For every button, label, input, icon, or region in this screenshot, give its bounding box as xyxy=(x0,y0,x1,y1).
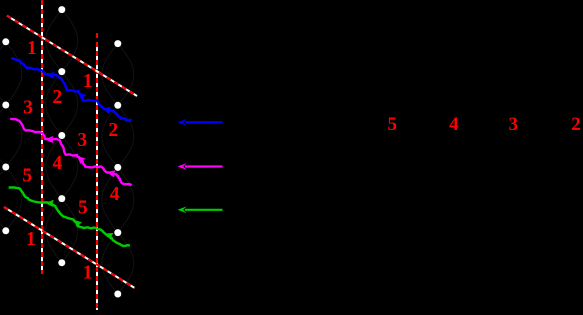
svg-text:3: 3 xyxy=(77,130,87,151)
svg-text:3: 3 xyxy=(23,98,33,119)
svg-text:4: 4 xyxy=(449,114,459,135)
svg-text:5: 5 xyxy=(388,114,398,135)
svg-text:1: 1 xyxy=(83,71,93,92)
svg-text:1: 1 xyxy=(26,229,36,250)
svg-text:4: 4 xyxy=(53,153,63,174)
svg-text:4: 4 xyxy=(110,184,120,205)
svg-text:3: 3 xyxy=(509,114,519,135)
svg-text:1: 1 xyxy=(27,38,37,59)
svg-text:5: 5 xyxy=(22,166,32,187)
svg-text:5: 5 xyxy=(78,198,88,219)
svg-text:2: 2 xyxy=(53,87,63,108)
svg-text:2: 2 xyxy=(571,114,581,135)
svg-text:2: 2 xyxy=(108,120,118,141)
svg-text:1: 1 xyxy=(83,262,93,283)
